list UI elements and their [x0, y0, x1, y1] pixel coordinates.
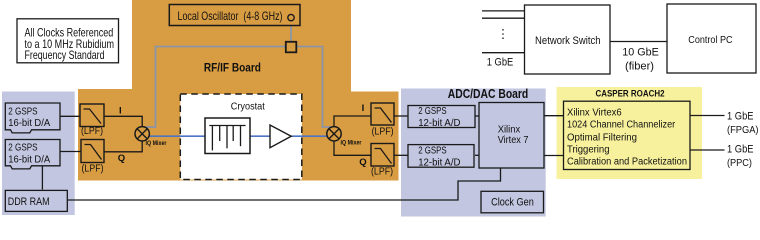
LPF1 box [80, 104, 104, 127]
LPF3 box [371, 103, 394, 125]
local oscillator box [169, 5, 300, 26]
wire Virtex 7 to ROACH2 (bottom) [544, 155, 564, 157]
svg-text:IQ Mixer: IQ Mixer [146, 141, 168, 147]
svg-text:CASPER ROACH2: CASPER ROACH2 [596, 89, 665, 99]
LO drop from oscillator to splitter [290, 21, 292, 43]
LO distribution line to right mixer [291, 47, 331, 128]
wire network switch input 1 [482, 10, 525, 12]
svg-text:Q: Q [359, 157, 366, 168]
blue RF signal line mixer to cryostat [149, 135, 206, 137]
wire LPF2 to left IQ mixer (Q path) [104, 140, 142, 152]
ADC/DAC board blue panel [401, 89, 546, 217]
svg-text:1 GbE: 1 GbE [727, 144, 754, 156]
svg-text:Control PC: Control PC [688, 34, 733, 46]
svg-text:(LPF): (LPF) [82, 163, 104, 174]
comb filter in cryostat [205, 118, 250, 154]
svg-text:1 GbE: 1 GbE [727, 110, 754, 122]
svg-text:Cryostat: Cryostat [231, 100, 265, 112]
svg-text:I: I [362, 103, 365, 114]
clock reference note box [17, 19, 119, 63]
svg-text:IQ Mixer: IQ Mixer [341, 141, 363, 147]
wire LPF3 to ADC1 [394, 115, 408, 117]
ADC2 box 2 GSPS 12-bit A/D [408, 145, 474, 168]
svg-text:I: I [119, 106, 122, 117]
wire Virtex 7 to ROACH2 (top) [544, 115, 564, 117]
wire network switch input 3 (1 GbE) [482, 52, 525, 54]
wire LPF4 to ADC2 [394, 154, 408, 156]
svg-text:(FPGA): (FPGA) [727, 125, 759, 136]
svg-text:Xilinx Virtex6: Xilinx Virtex6 [567, 107, 622, 118]
amplifier triangle in cryostat [270, 125, 291, 148]
wire ADC2 to Virtex 7 [475, 154, 479, 156]
wire network switch to control PC (10 GbE fiber) [610, 41, 667, 43]
svg-text:Clock Gen: Clock Gen [491, 197, 534, 209]
svg-text:(LPF): (LPF) [81, 126, 103, 137]
blue RF signal line comb to amplifier [250, 135, 270, 137]
right IQ mixer [327, 127, 341, 141]
svg-text:Local Oscillator (4-8 GHz): Local Oscillator (4-8 GHz) [178, 9, 283, 23]
DDR RAM box [5, 190, 67, 211]
cryostat dashed enclosure [180, 94, 301, 180]
svg-text:(PPC): (PPC) [727, 158, 752, 169]
svg-text:2 GSPS: 2 GSPS [418, 106, 447, 117]
svg-text:DDR RAM: DDR RAM [8, 196, 50, 208]
svg-text:Network Switch: Network Switch [535, 35, 601, 47]
Xilinx Virtex 7 box [479, 103, 544, 169]
local oscillator output port circle [288, 14, 294, 20]
wire right IQ mixer to LPF4 (Q path) [334, 141, 371, 156]
svg-text:Virtex 7: Virtex 7 [498, 135, 529, 146]
wire DAC2 to DDR RAM [41, 166, 43, 190]
DAC1 box 2 GSPS 16-bit D/A [5, 103, 60, 133]
wire ADC1 to Virtex 7 [475, 115, 479, 117]
LPF2 box [81, 140, 104, 163]
svg-text:Calibration and Packetization: Calibration and Packetization [567, 157, 687, 168]
LO splitter square [286, 42, 297, 53]
svg-text:RF/IF Board: RF/IF Board [204, 60, 261, 74]
wire network switch input 2 [482, 17, 525, 19]
wire LPF1 to left IQ mixer (I path) [104, 116, 142, 127]
wire DAC1 to LPF1 [60, 115, 80, 117]
CASPER ROACH2 yellow panel [557, 87, 703, 179]
network switch box [525, 5, 611, 74]
svg-text:2 GSPS: 2 GSPS [418, 145, 447, 156]
svg-text:(LPF): (LPF) [371, 166, 393, 177]
svg-text:1024 Channel Channelizer: 1024 Channel Channelizer [567, 120, 676, 131]
svg-text:16-bit D/A: 16-bit D/A [8, 153, 50, 165]
svg-text:2 GSPS: 2 GSPS [8, 142, 37, 154]
svg-text:Triggering: Triggering [567, 145, 610, 156]
svg-text:Optimal Filtering: Optimal Filtering [567, 132, 637, 143]
wire DAC2 to LPF2 [60, 151, 81, 153]
wire DDR RAM to Virtex 7 [67, 168, 501, 200]
svg-text:2 GSPS: 2 GSPS [8, 105, 37, 117]
wire ROACH2 output 1 GbE PPC [690, 149, 725, 151]
blue RF signal line amplifier to right mixer [291, 135, 328, 137]
svg-text:Frequency Standard: Frequency Standard [25, 48, 105, 62]
svg-text:Q: Q [118, 153, 125, 164]
svg-text:12-bit A/D: 12-bit A/D [418, 158, 460, 169]
LO distribution line to left mixer [146, 47, 291, 128]
RF/IF board orange panel [78, 0, 399, 181]
LPF4 box [371, 144, 394, 167]
wire ROACH2 output 1 GbE FPGA [690, 115, 725, 117]
svg-text:(LPF): (LPF) [372, 126, 394, 137]
wire right IQ mixer to LPF3 (I path) [334, 116, 371, 127]
left IQ mixer [135, 127, 149, 141]
svg-text:10 GbE: 10 GbE [622, 47, 659, 59]
svg-text:12-bit A/D: 12-bit A/D [418, 118, 460, 129]
control PC box [667, 4, 756, 73]
svg-text:(fiber): (fiber) [625, 60, 654, 72]
ROACH2 processing box [564, 101, 691, 169]
DAC2 box 2 GSPS 16-bit D/A [5, 140, 60, 169]
svg-text:ADC/DAC Board: ADC/DAC Board [448, 87, 529, 101]
ADC1 box 2 GSPS 12-bit A/D [408, 106, 475, 128]
svg-text:16-bit D/A: 16-bit D/A [8, 117, 50, 129]
ellipsis dots for more links [502, 29, 504, 31]
Clock Gen box [481, 191, 544, 213]
svg-text:1 GbE: 1 GbE [487, 57, 514, 69]
DAC board blue panel (left) [2, 92, 75, 216]
